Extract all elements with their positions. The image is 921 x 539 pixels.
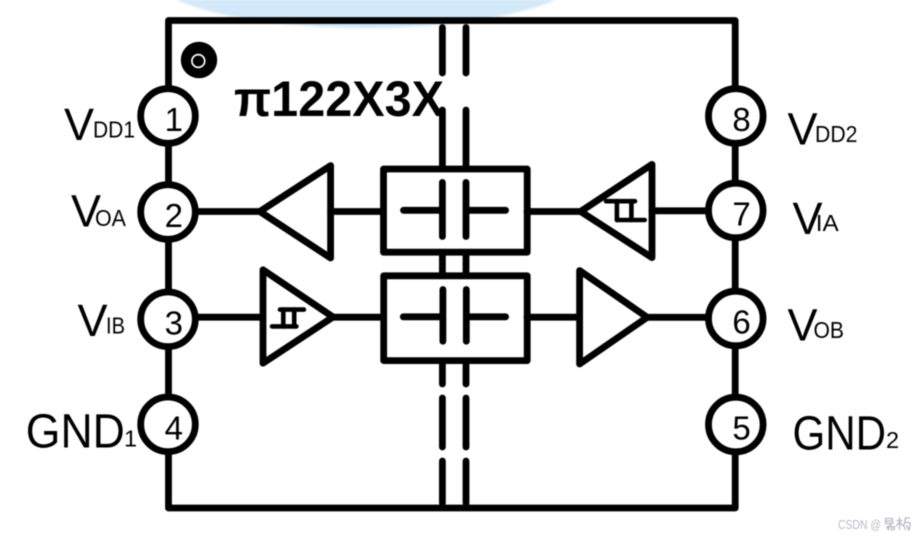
net label VOB (pin 6) <box>788 299 845 350</box>
capacitor block C1 (channel A isolation) <box>384 169 528 252</box>
wire input buffer A to pin 7 <box>652 207 706 214</box>
svg-text:IA: IA <box>816 210 839 236</box>
net label VIB (pin 3) <box>78 295 126 346</box>
svg-text:OA: OA <box>95 205 126 231</box>
pin 2 <box>141 185 196 240</box>
wire capacitor C1 to input buffer A <box>527 208 580 215</box>
svg-text:GND: GND <box>793 406 887 460</box>
output buffer channel B (right, points right) <box>580 271 648 364</box>
svg-text:CSDN @: CSDN @ <box>838 518 881 532</box>
svg-text:6: 6 <box>732 304 750 341</box>
svg-text:OB: OB <box>814 317 845 343</box>
capacitor C1 right plate <box>463 182 470 236</box>
pin 1 <box>141 89 196 144</box>
ground label GND2 (pin 5) <box>793 406 900 460</box>
pin 4 <box>141 397 196 452</box>
pin 1 index dot <box>181 42 217 78</box>
pin 5 circle <box>709 397 764 452</box>
svg-text:8: 8 <box>732 101 750 138</box>
isolation barrier (right dashed line) <box>463 28 470 504</box>
pin 7 <box>709 183 764 238</box>
svg-text:DD1: DD1 <box>93 117 135 143</box>
capacitor C2 right plate <box>463 290 470 342</box>
svg-text:4: 4 <box>165 409 183 446</box>
svg-text:V: V <box>64 99 94 150</box>
pin 6 <box>709 291 764 346</box>
part number label pi122X3X <box>234 71 444 127</box>
svg-text:π122X3X: π122X3X <box>234 71 444 127</box>
capacitor C2 right lead <box>467 313 506 320</box>
svg-text:GND: GND <box>26 404 125 458</box>
pin 8 circle <box>709 89 764 144</box>
wire pin3 to schmitt buffer B <box>197 314 263 321</box>
decorative blue glow (background) <box>149 0 583 28</box>
chip package outline <box>169 21 736 509</box>
wire pin2 to buffer A output <box>197 208 259 215</box>
svg-text:DD2: DD2 <box>815 121 858 147</box>
capacitor C2 left lead <box>403 313 441 320</box>
net label VDD1 (pin 1) <box>64 99 135 150</box>
pin 6 circle <box>709 291 764 346</box>
svg-text:1: 1 <box>165 101 183 138</box>
svg-text:1: 1 <box>124 426 137 452</box>
watermark CSDN <box>838 517 910 532</box>
net label VDD2 (pin 8) <box>788 104 858 155</box>
capacitor C2 left plate <box>439 290 446 342</box>
capacitor C1 right lead <box>467 207 506 214</box>
output buffer channel A (left, points left) <box>260 166 331 258</box>
isolation barrier (left dashed line) <box>439 28 446 504</box>
pin 2 circle <box>141 185 196 240</box>
svg-text:2: 2 <box>886 427 899 453</box>
wire schmitt buffer B to capacitor C2 <box>333 314 386 321</box>
input buffer channel B (left, schmitt, points right) <box>263 270 333 363</box>
input buffer channel A (right, schmitt, points left) <box>581 164 652 257</box>
wire capacitor C2 to output buffer B <box>527 314 580 321</box>
net label VIA (pin 7) <box>793 193 840 244</box>
pin 5 <box>709 397 764 452</box>
pin 4 circle <box>141 397 196 452</box>
capacitor block C2 (channel B isolation) <box>384 276 528 361</box>
svg-text:2: 2 <box>165 197 183 234</box>
svg-text:5: 5 <box>732 410 750 447</box>
pin 3 circle <box>141 292 196 347</box>
pin 1 circle <box>141 89 196 144</box>
svg-text:V: V <box>78 295 108 346</box>
pin 3 <box>141 292 196 347</box>
svg-text:V: V <box>788 104 818 155</box>
capacitor C1 left lead <box>404 207 442 214</box>
pin 7 circle <box>709 183 764 238</box>
capacitor C1 left plate <box>439 182 446 236</box>
svg-text:7: 7 <box>732 196 750 233</box>
ground label GND1 (pin 4) <box>26 404 137 458</box>
pin 8 <box>709 89 764 144</box>
wire buffer A to capacitor C1 <box>331 208 386 215</box>
svg-text:IB: IB <box>106 313 125 339</box>
svg-text:3: 3 <box>165 304 183 341</box>
wire output buffer B to pin 6 <box>647 314 706 321</box>
net label VOA (pin 2) <box>71 186 126 237</box>
